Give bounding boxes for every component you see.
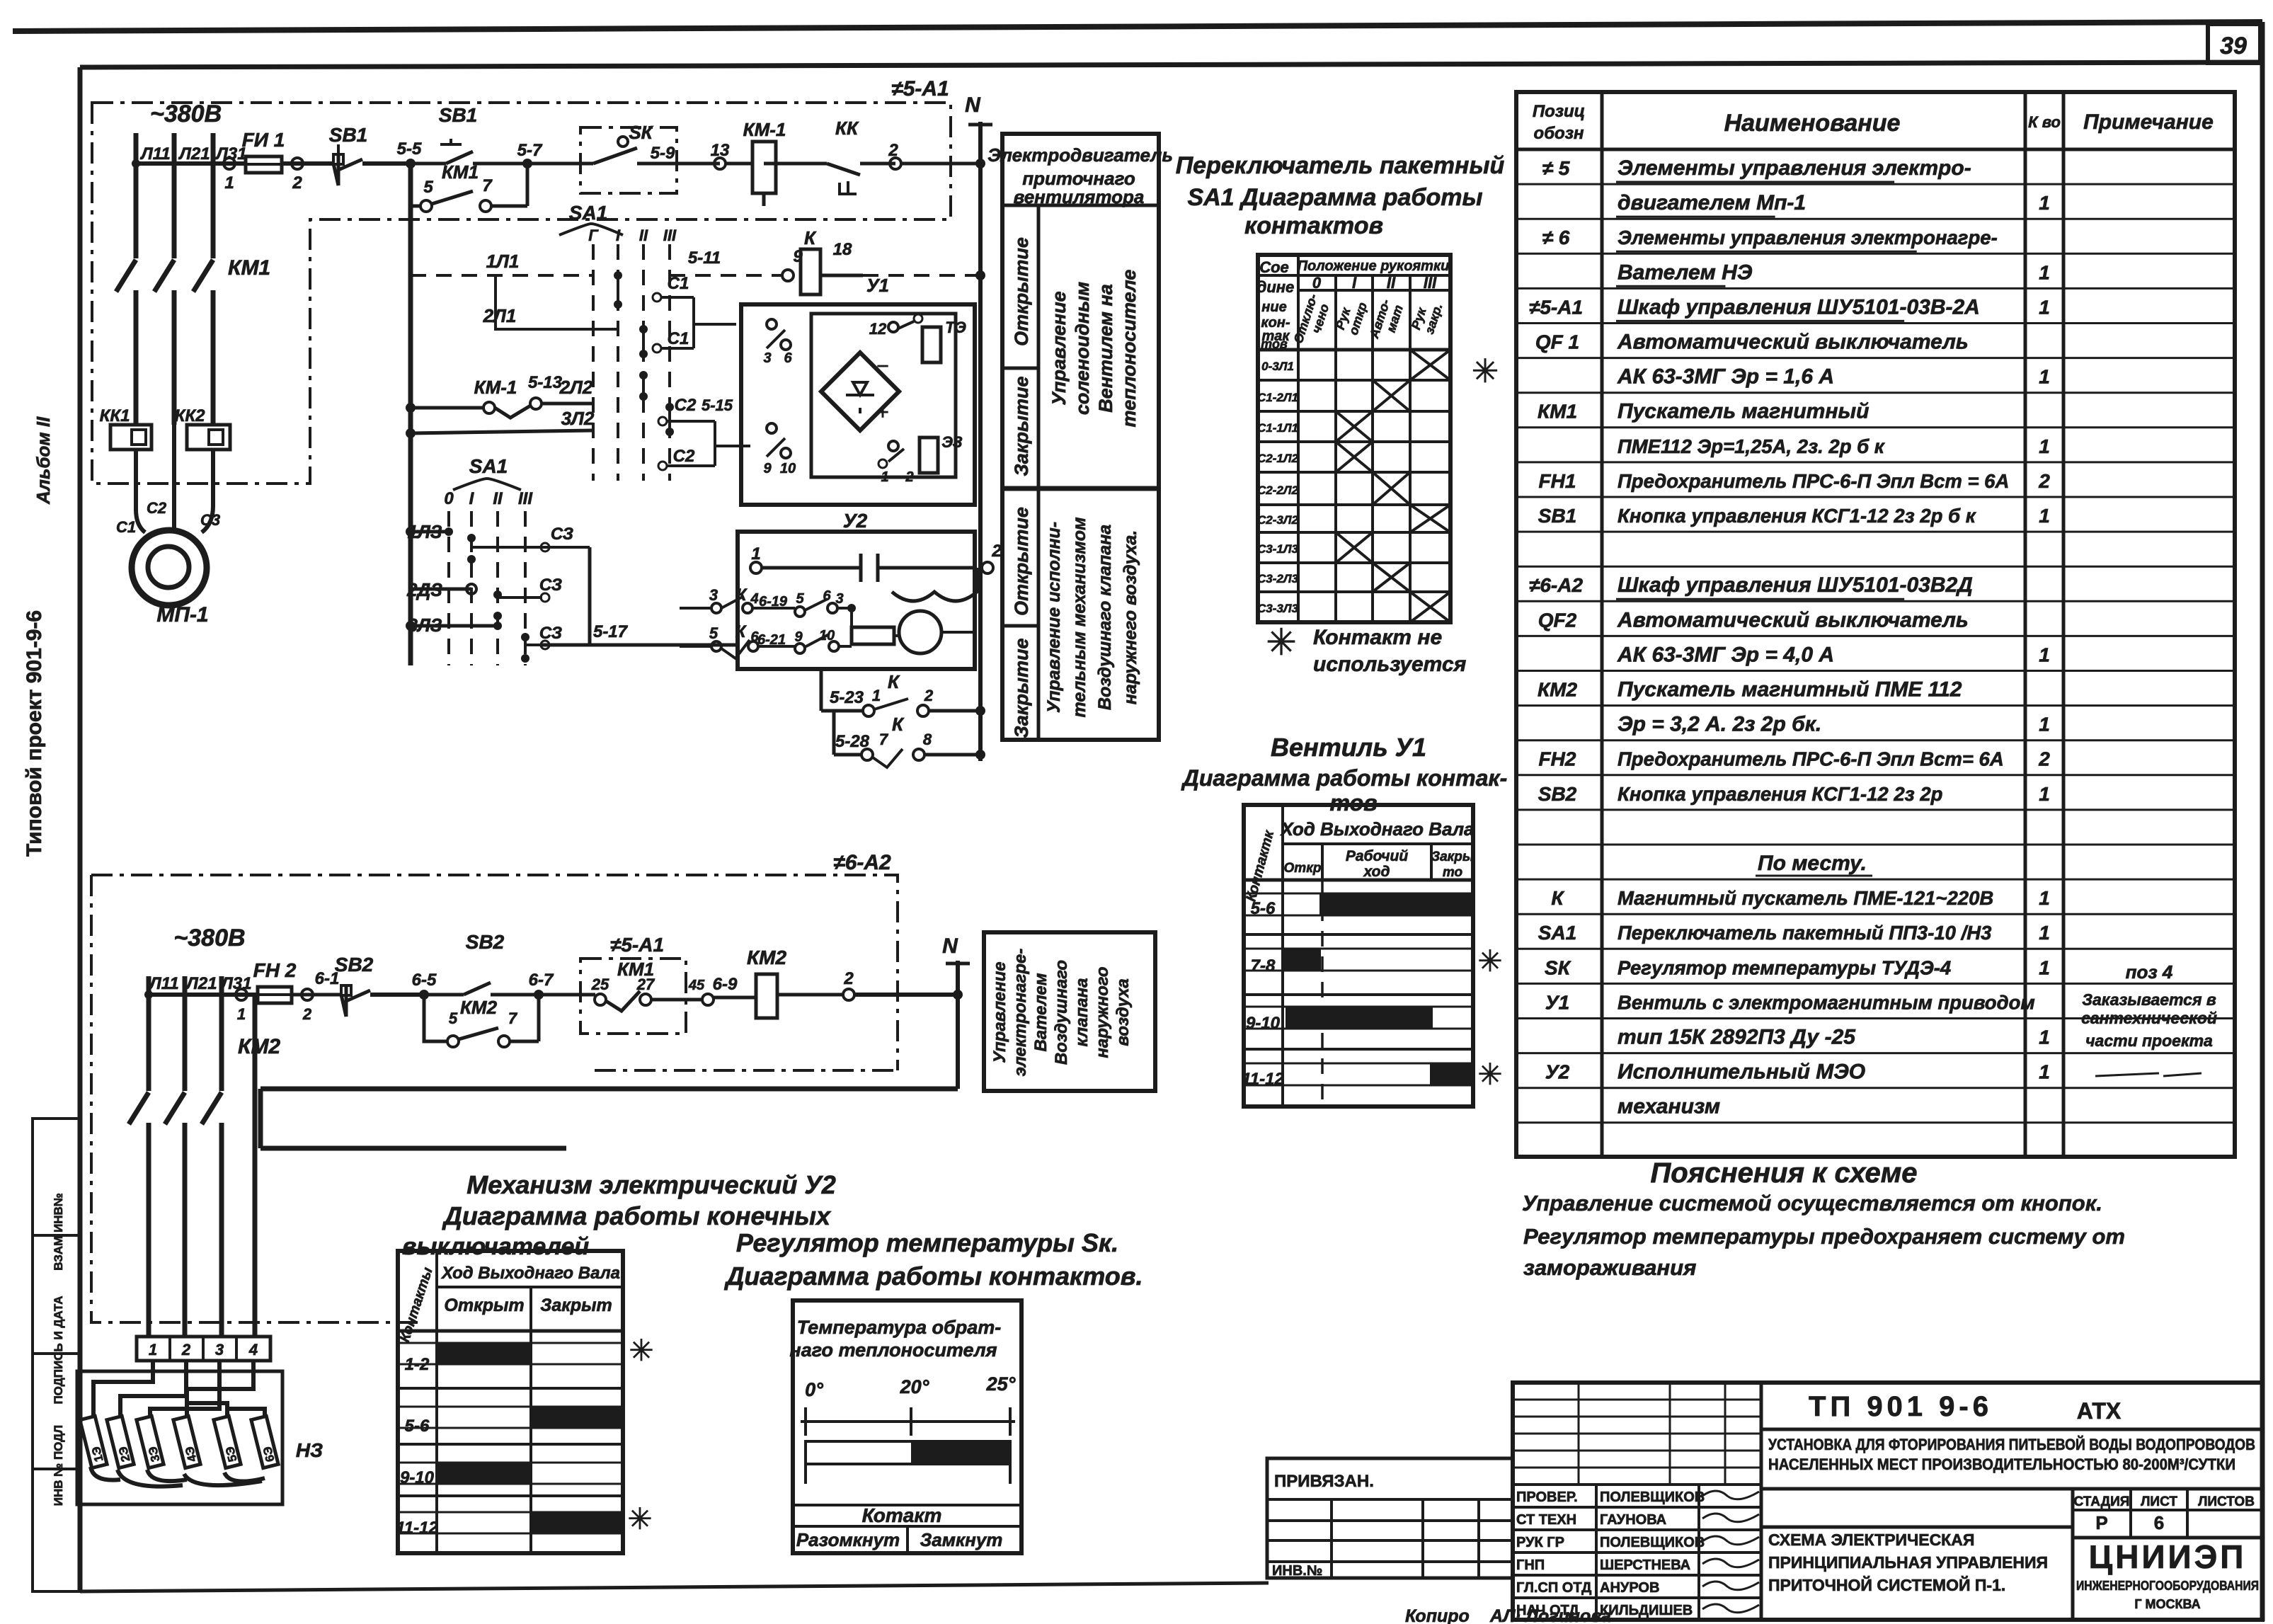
svg-text:≠6-А2: ≠6-А2: [1529, 574, 1583, 596]
svg-text:К во: К во: [2028, 113, 2061, 131]
svg-text:Регулятор температуры предохр: Регулятор температуры предохраняет систе…: [1523, 1224, 2125, 1249]
svg-text:QF2: QF2: [1538, 609, 1577, 631]
svg-text:ние: ние: [1261, 299, 1286, 315]
svg-text:Управление исполни-: Управление исполни-: [1044, 522, 1064, 713]
svg-text:7-8: 7-8: [1251, 956, 1276, 976]
svg-text:1: 1: [2039, 366, 2050, 388]
lower feed wire: [144, 989, 258, 1023]
svg-text:КМ-1: КМ-1: [474, 377, 517, 398]
descriptor box lower (electro heater): [984, 932, 1155, 1091]
svg-text:Магнитный пускатель ПМЕ-121~2: Магнитный пускатель ПМЕ-121~220В: [1618, 887, 1993, 909]
C1 stub wires: [653, 274, 736, 353]
svg-text:замораживания: замораживания: [1523, 1255, 1696, 1280]
node 13: [711, 141, 754, 169]
svg-text:25: 25: [591, 976, 609, 993]
svg-text:Заказывается в: Заказывается в: [2082, 990, 2216, 1009]
svg-text:Л21: Л21: [178, 144, 210, 164]
label ~380V: [150, 101, 222, 127]
svg-text:С3-3Л3: С3-3Л3: [1257, 602, 1299, 615]
svg-text:I: I: [616, 227, 621, 244]
lower phase lines: [129, 974, 280, 1337]
svg-text:Воздушнаго клапана: Воздушнаго клапана: [1095, 525, 1115, 710]
return wire lower: [260, 1089, 958, 1148]
svg-text:ПМЕ112 Эр=1,25А, 2з. 2р б: ПМЕ112 Эр=1,25А, 2з. 2р б к: [1618, 435, 1886, 457]
svg-text:≠6-А2: ≠6-А2: [833, 851, 891, 874]
valve U1 box with rectifier: [741, 304, 975, 505]
svg-text:2Л2: 2Л2: [559, 377, 593, 398]
label 6-A2: [833, 851, 891, 874]
svg-text:С2: С2: [673, 447, 695, 466]
svg-text:1: 1: [751, 544, 760, 564]
svg-text:7: 7: [879, 731, 889, 748]
svg-text:Кнопка управления КСГ1-12 2: Кнопка управления КСГ1-12 2з 2р: [1618, 783, 1942, 805]
bus 5-5 vertical: [408, 164, 413, 665]
svg-text:Открытие: Открытие: [1011, 507, 1032, 616]
svg-text:Примечание: Примечание: [2083, 110, 2214, 134]
U2 mechanism table: [396, 1251, 653, 1553]
wires C3 stubs: [471, 525, 738, 649]
svg-text:тельным механизмом: тельным механизмом: [1070, 517, 1089, 718]
svg-text:КК2: КК2: [175, 406, 206, 425]
svg-text:С1: С1: [668, 274, 689, 293]
svg-text:механизм: механизм: [1618, 1095, 1720, 1119]
svg-text:18: 18: [833, 240, 852, 259]
svg-text:сантехнической: сантехнической: [2081, 1009, 2217, 1027]
svg-text:1: 1: [2039, 922, 2050, 944]
svg-text:3Л2: 3Л2: [561, 408, 595, 429]
svg-text:Пускатель магнитный: Пускатель магнитный: [1618, 400, 1869, 423]
svg-text:Рабочий: Рабочий: [1346, 848, 1409, 864]
svg-text:39: 39: [2220, 33, 2247, 59]
svg-text:8: 8: [923, 731, 932, 748]
svg-text:Элементы управления электронаг: Элементы управления электронагре-: [1618, 227, 1998, 248]
svg-text:КМ2: КМ2: [1538, 679, 1578, 701]
svg-text:1: 1: [2039, 192, 2050, 214]
svg-text:SА1 Диаграмма работы: SА1 Диаграмма работы: [1187, 184, 1482, 211]
svg-text:1: 1: [2039, 261, 2050, 283]
svg-text:1Л1: 1Л1: [486, 251, 520, 272]
svg-text:то: то: [1443, 865, 1462, 880]
svg-text:Вентиль У1: Вентиль У1: [1271, 733, 1426, 762]
svg-text:0: 0: [1312, 274, 1322, 292]
svg-text:ПРОВЕР.: ПРОВЕР.: [1516, 1489, 1578, 1505]
U2 mechanism title: [402, 1170, 836, 1260]
svg-text:Шкаф управления ШУ5101-03В2Д: Шкаф управления ШУ5101-03В2Д: [1618, 573, 1973, 597]
label 5-A1: [891, 77, 949, 101]
svg-text:двигателем Мп-1: двигателем Мп-1: [1618, 191, 1806, 215]
svg-text:С3: С3: [200, 511, 220, 529]
svg-text:С2-2Л2: С2-2Л2: [1257, 484, 1299, 497]
svg-text:Предохранитель ПРС-6-П Эпл Вс: Предохранитель ПРС-6-П Эпл Вст = 6А: [1618, 470, 2009, 492]
svg-text:1: 1: [2039, 435, 2050, 457]
svg-text:ЭЗ: ЭЗ: [941, 433, 962, 451]
svg-text:5-9: 5-9: [651, 144, 675, 163]
svg-text:ТП 901 9-6: ТП 901 9-6: [1809, 1391, 1993, 1422]
button SB1 stop: [329, 124, 411, 185]
svg-text:ход: ход: [1363, 864, 1390, 880]
svg-text:0-3Л1: 0-3Л1: [1261, 360, 1294, 373]
switch SA1 lower group: [406, 455, 533, 665]
svg-text:5: 5: [709, 624, 718, 642]
svg-text:2: 2: [991, 542, 1002, 561]
page number box 39: [2208, 24, 2260, 63]
svg-text:9-10: 9-10: [1246, 1014, 1281, 1033]
svg-text:45: 45: [688, 978, 705, 993]
svg-text:Вентилем на: Вентилем на: [1095, 284, 1116, 413]
svg-text:2: 2: [181, 1341, 191, 1359]
svg-text:2: 2: [2038, 470, 2050, 492]
svg-text:Исполнительный МЭО: Исполнительный МЭО: [1618, 1060, 1865, 1084]
svg-text:Автоматический выключатель: Автоматический выключатель: [1617, 608, 1969, 631]
contact K 5-23: [821, 669, 985, 716]
svg-text:ПОДПИСЬ И ДАТА: ПОДПИСЬ И ДАТА: [52, 1296, 65, 1404]
SK thermostat box: [527, 122, 720, 193]
svg-text:КК: КК: [835, 118, 859, 139]
svg-text:Температура обрат-: Температура обрат-: [797, 1317, 1002, 1338]
title block frame: [1513, 1383, 2262, 1620]
svg-text:Вателем: Вателем: [1031, 973, 1050, 1051]
svg-text:ГЛ.СП ОТД: ГЛ.СП ОТД: [1516, 1580, 1591, 1596]
left margin vertical captions: [23, 416, 54, 857]
svg-text:Управление: Управление: [990, 961, 1009, 1063]
svg-text:10: 10: [780, 461, 796, 476]
svg-text:Разомкнут: Разомкнут: [796, 1529, 900, 1550]
svg-text:АЛ· Логинова: АЛ· Логинова: [1489, 1606, 1611, 1624]
svg-text:1: 1: [2039, 714, 2050, 736]
svg-text:Шкаф управления ШУ5101-03В-2А: Шкаф управления ШУ5101-03В-2А: [1618, 295, 1980, 319]
button SB2 stop: [335, 954, 424, 1017]
svg-text:FИ 1: FИ 1: [242, 129, 285, 151]
svg-text:✳: ✳: [1472, 353, 1499, 389]
svg-text:К: К: [804, 227, 817, 248]
wire to SB2: [292, 969, 341, 1023]
svg-text:Диаграмма работы контак-: Диаграмма работы контак-: [1181, 765, 1508, 791]
svg-text:контактов: контактов: [1244, 212, 1383, 239]
svg-text:обозн: обозн: [1534, 124, 1584, 143]
svg-text:20°: 20°: [900, 1376, 929, 1397]
svg-text:клапана: клапана: [1072, 978, 1092, 1047]
svg-text:наружного: наружного: [1093, 966, 1112, 1058]
svg-text:СЗ: СЗ: [539, 576, 562, 595]
svg-text:НАСЕЛЕННЫХ МЕСТ ПРОИЗВОДИТЕЛЬН: НАСЕЛЕННЫХ МЕСТ ПРОИЗВОДИТЕЛЬНОСТЬЮ 80-2…: [1768, 1456, 2235, 1473]
svg-text:6-5: 6-5: [412, 971, 437, 990]
parts list table grid: [1516, 92, 2235, 1157]
fuse FI1: [242, 129, 285, 173]
svg-text:1: 1: [224, 173, 234, 193]
node 6-5 and SB2 start: [412, 931, 539, 1000]
node 2 lower: [843, 969, 958, 1000]
svg-text:−: −: [876, 355, 889, 378]
button SB1 start NO: [411, 104, 527, 168]
svg-text:ВЗАМ ИНВ№: ВЗАМ ИНВ№: [52, 1193, 65, 1271]
svg-text:0: 0: [444, 489, 454, 508]
svg-text:С2: С2: [147, 499, 167, 517]
svg-text:1: 1: [149, 1341, 157, 1359]
svg-text:III: III: [518, 489, 533, 508]
svg-text:С3-1Л3: С3-1Л3: [1257, 542, 1299, 556]
explanations text: [1522, 1157, 2125, 1280]
SK regulator title: [723, 1228, 1143, 1291]
svg-text:Откр: Откр: [1284, 861, 1322, 876]
svg-text:С2: С2: [675, 396, 697, 415]
svg-text:Закрытие: Закрытие: [1011, 638, 1032, 738]
KM2 aux holding contact: [424, 995, 539, 1047]
svg-text:РУК ГР: РУК ГР: [1516, 1535, 1564, 1550]
svg-text:Наименование: Наименование: [1724, 110, 1901, 137]
svg-text:части проекта: части проекта: [2085, 1031, 2213, 1050]
svg-text:соленоидным: соленоидным: [1072, 282, 1093, 415]
svg-text:Регулятор температуры Sк.: Регулятор температуры Sк.: [736, 1228, 1118, 1257]
svg-text:Элементы управления электро-: Элементы управления электро-: [1618, 156, 1971, 180]
svg-text:К: К: [892, 714, 905, 735]
svg-text:✳: ✳: [1477, 944, 1502, 978]
svg-text:МП-1: МП-1: [156, 603, 208, 627]
svg-text:выключателей: выключателей: [402, 1233, 590, 1260]
svg-text:Вателем НЭ: Вателем НЭ: [1618, 261, 1753, 284]
svg-text:КМ-1: КМ-1: [743, 119, 786, 140]
svg-text:КМ2: КМ2: [238, 1035, 280, 1058]
svg-text:АНУРОВ: АНУРОВ: [1600, 1580, 1659, 1596]
svg-text:FН2: FН2: [1539, 748, 1576, 770]
motor MP-1: [116, 425, 220, 627]
svg-text:III: III: [663, 227, 677, 244]
svg-text:ПРИВЯЗАН.: ПРИВЯЗАН.: [1274, 1472, 1374, 1491]
privyazan table: [1267, 1458, 1513, 1579]
svg-text:5: 5: [423, 178, 433, 197]
svg-text:СЗ: СЗ: [539, 624, 562, 643]
svg-text:Г МОСКВА: Г МОСКВА: [2134, 1597, 2200, 1611]
svg-text:5-7: 5-7: [517, 141, 543, 160]
title block texts: [1405, 1391, 2259, 1624]
svg-text:Электродвигатель: Электродвигатель: [987, 144, 1173, 166]
svg-text:SА1: SА1: [1538, 922, 1576, 944]
svg-text:С3-2Л3: С3-2Л3: [1257, 572, 1299, 585]
svg-text:Воздушнаго: Воздушнаго: [1052, 960, 1071, 1065]
svg-text:~380В: ~380В: [150, 101, 222, 127]
svg-text:6: 6: [784, 350, 792, 366]
svg-text:QF 1: QF 1: [1535, 331, 1579, 353]
svg-text:5-6: 5-6: [405, 1417, 430, 1436]
svg-text:КМ1: КМ1: [228, 256, 270, 280]
svg-text:ЛИСТОВ: ЛИСТОВ: [2198, 1494, 2255, 1509]
node 2 right: [888, 141, 980, 169]
switch SA1 upper group: [559, 202, 677, 481]
heater block N3: [77, 1361, 323, 1504]
svg-text:электронагре-: электронагре-: [1011, 949, 1030, 1077]
svg-text:SА1: SА1: [569, 202, 607, 224]
label U2: [843, 510, 868, 532]
svg-text:К: К: [888, 671, 900, 692]
enclosure 5-A1 dash-dot: [92, 103, 951, 484]
svg-text:Открыт: Открыт: [444, 1296, 524, 1315]
svg-text:Управление: Управление: [1048, 291, 1070, 405]
svg-text:С2-3Л2: С2-3Л2: [1257, 513, 1299, 527]
svg-text:0°: 0°: [805, 1379, 823, 1400]
svg-text:ГНП: ГНП: [1516, 1557, 1545, 1573]
thermal elements KK1 KK2: [100, 406, 230, 488]
svg-text:1: 1: [2039, 296, 2050, 318]
svg-text:25°: 25°: [986, 1373, 1016, 1395]
svg-text:I: I: [1352, 274, 1357, 292]
svg-text:Типовой проект 901-9-6: Типовой проект 901-9-6: [23, 610, 46, 857]
svg-text:III: III: [1424, 274, 1437, 292]
svg-text:2: 2: [302, 1005, 312, 1023]
svg-text:5: 5: [449, 1010, 458, 1027]
svg-text:КМ2: КМ2: [460, 997, 498, 1018]
svg-text:Закры: Закры: [1431, 850, 1474, 864]
svg-text:ТЭ: ТЭ: [945, 319, 966, 336]
svg-text:6-7: 6-7: [529, 971, 554, 990]
svg-text:7: 7: [508, 1010, 518, 1027]
parts list rows text: [1529, 156, 2217, 1119]
svg-text:Предохранитель ПРС-6-П Эпл Вс: Предохранитель ПРС-6-П Эпл Вст= 6А: [1618, 748, 2004, 770]
fuse FN2: [253, 959, 297, 1003]
svg-text:С1-1Л1: С1-1Л1: [1257, 421, 1298, 435]
svg-text:Контакт не: Контакт не: [1313, 626, 1442, 649]
terminal strip 1-4: [137, 1337, 270, 1361]
node 5-7: [517, 141, 543, 168]
svg-text:Ход Выходнаго Вала: Ход Выходнаго Вала: [440, 1264, 620, 1283]
svg-text:Регулятор температуры ТУДЭ-4: Регулятор температуры ТУДЭ-4: [1618, 956, 1951, 978]
svg-text:II: II: [493, 489, 503, 508]
wire fuse to SB1: [282, 158, 333, 193]
svg-text:SВ2: SВ2: [1538, 783, 1577, 805]
svg-text:Механизм электрический У2: Механизм электрический У2: [466, 1170, 836, 1199]
svg-text:Л11: Л11: [139, 144, 170, 164]
svg-text:ПОЛЕВЩИКОВ: ПОЛЕВЩИКОВ: [1600, 1489, 1705, 1505]
svg-text:СЗ: СЗ: [551, 525, 573, 544]
svg-text:АК 63-3МГ Эр = 4,0 А: АК 63-3МГ Эр = 4,0 А: [1617, 643, 1834, 666]
svg-text:SВ1: SВ1: [1538, 505, 1576, 527]
svg-text:ЛИСТ: ЛИСТ: [2141, 1494, 2177, 1509]
svg-text:С2-1Л2: С2-1Л2: [1257, 452, 1299, 465]
SA1 contact table: [1257, 255, 1499, 622]
label ~380V lower: [173, 925, 245, 951]
svg-text:Диаграмма работы конечных: Диаграмма работы конечных: [442, 1201, 832, 1230]
svg-text:КМ1: КМ1: [1538, 401, 1577, 423]
svg-text:SВ2: SВ2: [466, 931, 505, 953]
svg-text:ИНВ.№: ИНВ.№: [1272, 1563, 1322, 1579]
svg-text:2: 2: [924, 687, 934, 704]
svg-text:наружнего воздуха.: наружнего воздуха.: [1121, 530, 1140, 704]
svg-text:Управление системой осуществл: Управление системой осуществляется от кн…: [1522, 1191, 2102, 1216]
svg-text:Пояснения к схеме: Пояснения к схеме: [1650, 1157, 1917, 1189]
svg-text:Положение рукоятки: Положение рукоятки: [1298, 258, 1450, 274]
svg-text:5: 5: [796, 591, 804, 607]
svg-text:КИЛЬДИШЕВ: КИЛЬДИШЕВ: [1600, 1603, 1693, 1618]
svg-text:1: 1: [2039, 505, 2050, 527]
svg-text:2: 2: [843, 969, 854, 988]
node 6-9: [686, 975, 756, 1005]
svg-text:ИНВ № ПОДЛ: ИНВ № ПОДЛ: [52, 1425, 65, 1506]
svg-text:КМ1: КМ1: [442, 161, 479, 183]
svg-text:используется: используется: [1313, 653, 1467, 676]
svg-text:1: 1: [237, 1005, 246, 1023]
SA1 diagram title: [1176, 152, 1505, 239]
svg-text:≠5-А1: ≠5-А1: [610, 934, 664, 956]
svg-text:теплоносителе: теплоносителе: [1118, 270, 1140, 428]
node 6-7: [529, 971, 584, 1000]
svg-text:СТ ТЕХН: СТ ТЕХН: [1516, 1512, 1576, 1528]
svg-text:Л21: Л21: [185, 974, 217, 993]
svg-text:✳: ✳: [629, 1334, 653, 1367]
svg-text:2: 2: [905, 469, 913, 485]
sheet top border: [13, 22, 2262, 31]
svg-text:У2: У2: [843, 510, 868, 532]
svg-text:6-9: 6-9: [713, 975, 738, 994]
svg-text:11-12: 11-12: [396, 1519, 438, 1538]
svg-text:У1: У1: [1545, 991, 1570, 1013]
enclosure 6-A2 dash-dot: [91, 875, 898, 1322]
svg-text:3: 3: [709, 586, 718, 604]
KM1 aux holding contact: [411, 161, 527, 212]
svg-text:Закрыт: Закрыт: [540, 1296, 612, 1315]
svg-text:5-15: 5-15: [702, 396, 733, 414]
svg-text:У1: У1: [866, 275, 889, 296]
svg-text:5-17: 5-17: [593, 622, 629, 641]
svg-text:✳: ✳: [1477, 1058, 1502, 1091]
svg-text:1: 1: [2039, 1061, 2050, 1083]
svg-text:FН1: FН1: [1539, 470, 1576, 492]
SA1 legend: [1266, 622, 1466, 676]
svg-text:✳: ✳: [1266, 622, 1297, 663]
svg-text:Замкнут: Замкнут: [920, 1529, 1003, 1550]
valve U1 diagram title: [1181, 733, 1508, 816]
svg-text:С1-2Л1: С1-2Л1: [1257, 391, 1298, 404]
svg-text:2Л1: 2Л1: [483, 305, 517, 326]
svg-text:Альбом II: Альбом II: [33, 416, 54, 505]
N rail lower: [942, 934, 970, 1089]
parts list header: [1533, 102, 2214, 143]
valve U1 contact table: [1242, 805, 1502, 1107]
actuator U2 box: [590, 532, 1002, 669]
svg-text:вентилятора: вентилятора: [1014, 186, 1145, 207]
svg-text:1: 1: [2039, 956, 2050, 978]
node 5-5: [397, 139, 422, 168]
svg-text:5-11: 5-11: [688, 248, 721, 268]
wire 1L1: [411, 251, 593, 275]
svg-text:К: К: [735, 622, 748, 641]
svg-text:Автоматический выключатель: Автоматический выключатель: [1617, 331, 1969, 354]
svg-text:поз 4: поз 4: [2126, 961, 2173, 983]
wire 5-11 row with coil K: [670, 227, 985, 296]
wire 3L2: [406, 408, 595, 438]
svg-text:≠ 6: ≠ 6: [1542, 227, 1570, 248]
svg-text:Позиц: Позиц: [1533, 102, 1585, 121]
svg-text:SВ2: SВ2: [335, 954, 374, 976]
svg-text:Р: Р: [2095, 1512, 2107, 1533]
svg-text:СТАДИЯ: СТАДИЯ: [2074, 1494, 2130, 1509]
function descriptor table: [987, 134, 1173, 740]
svg-text:5-23: 5-23: [830, 688, 864, 707]
svg-text:Г: Г: [588, 227, 599, 244]
svg-text:27: 27: [636, 976, 655, 993]
svg-text:1: 1: [2039, 644, 2050, 665]
SK regulator table: [789, 1300, 1021, 1553]
svg-text:FН 2: FН 2: [253, 959, 297, 981]
contact K 5-28: [834, 711, 985, 767]
wire 2L1: [483, 275, 618, 329]
svg-text:дине: дине: [1257, 278, 1295, 296]
svg-text:4: 4: [248, 1341, 258, 1359]
box 5-A1 with KM1 contact: [580, 934, 686, 1034]
svg-text:У2: У2: [1545, 1061, 1570, 1083]
svg-text:≠5-А1: ≠5-А1: [891, 77, 949, 101]
svg-text:~380В: ~380В: [173, 925, 245, 951]
svg-text:Закрытие: Закрытие: [1011, 376, 1032, 476]
svg-text:НЗ: НЗ: [296, 1439, 323, 1461]
svg-text:SК: SК: [629, 122, 653, 143]
